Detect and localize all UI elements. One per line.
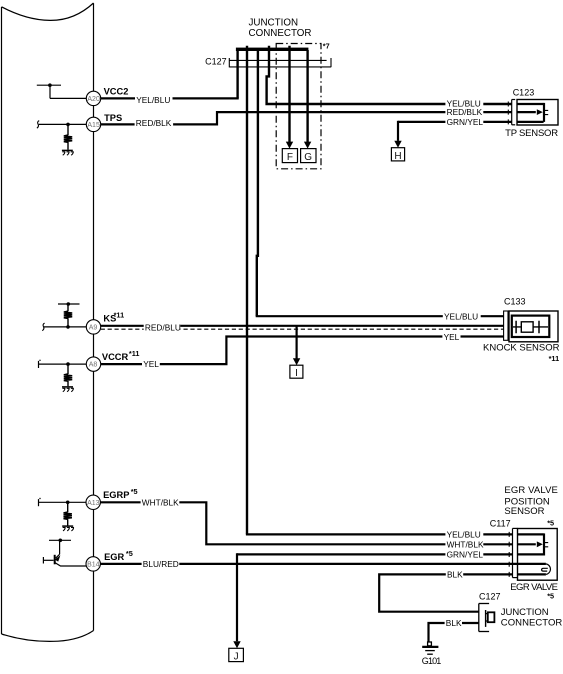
svg-text:A13: A13 [87, 500, 100, 507]
svg-text:C127: C127 [205, 57, 227, 67]
svg-text:H: H [394, 151, 401, 162]
svg-text:GRN/YEL: GRN/YEL [447, 550, 484, 560]
stub 2 long vertical to EGR sensor YEL/BLU [246, 50, 248, 534]
pin A8 [86, 357, 100, 371]
internal pull-up bar for A20 [37, 85, 61, 98]
junction connector C127 bottom symbol bracket [479, 604, 489, 632]
svg-text:*5: *5 [131, 487, 138, 496]
svg-text:G101: G101 [422, 656, 442, 666]
wire VCC2 YEL/BLU from A20 to junction connector stub [50, 97, 86, 99]
svg-text:BLK: BLK [446, 618, 462, 628]
dash-dot box *7 [276, 44, 321, 169]
ground for A8 filter [62, 386, 73, 388]
svg-text:A8: A8 [89, 362, 98, 369]
wire label WHT/BLK (EGRP) [141, 497, 180, 507]
knock sensor outer box [509, 311, 558, 342]
wire EGR BLU/RED from B14 to EGR valve coil [100, 563, 546, 565]
connector pin ticks C117 [508, 532, 510, 577]
wire label YEL (knock sensor) [442, 332, 460, 342]
wire label YEL (VCCR) [142, 359, 160, 369]
junction dot A15 filter [66, 123, 70, 127]
wire label YEL/BLU (VCC2) [135, 95, 173, 105]
wire YEL/BLU from stub 2 to EGR sensor [246, 533, 513, 535]
svg-text:VCC2: VCC2 [104, 86, 129, 96]
ground G101 [428, 642, 432, 646]
tick end at A13 wire [38, 499, 40, 506]
junction dot A9 [66, 325, 70, 329]
svg-text:YEL: YEL [444, 332, 460, 342]
continuation squiggle at A9 wire end [42, 323, 44, 331]
svg-text:BLU/RED: BLU/RED [143, 559, 179, 569]
svg-text:*7: *7 [323, 42, 330, 51]
svg-text:EGR: EGR [104, 552, 124, 562]
svg-text:TP SENSOR: TP SENSOR [505, 128, 558, 139]
bar above A9 resistor [58, 303, 80, 305]
svg-text:A15: A15 [87, 122, 100, 129]
pin A13 [86, 495, 100, 509]
transistor Q for B14 [43, 540, 86, 566]
wire label GRN/YEL (EGR sensor) [445, 550, 483, 560]
EGR sensor wiper ticks [544, 543, 549, 547]
tick end at A8 wire [38, 361, 40, 368]
svg-text:GRN/YEL: GRN/YEL [447, 117, 484, 127]
wire label BLK (EGR valve) [446, 570, 463, 580]
ECM left edge [1, 7, 3, 634]
wire label YEL/BLU (knock sensor) [443, 311, 481, 321]
stub 1 to VCC2 [236, 50, 238, 98]
wire GRN/YEL from TP sensor to H [398, 121, 512, 123]
off-page box I [290, 365, 303, 378]
TP sensor wiper arrow [537, 109, 543, 115]
ground for A15 filter [62, 149, 73, 151]
svg-text:C123: C123 [513, 87, 535, 97]
off-page box J [229, 648, 244, 661]
junction dot on transistor bar [59, 539, 63, 543]
EGR position sensor potentiometer [518, 533, 545, 555]
wire VCCR YEL from A8 to knock sensor [39, 363, 87, 365]
svg-text:A20: A20 [87, 96, 100, 103]
pin B14 [86, 557, 100, 571]
svg-text:KNOCK SENSOR: KNOCK SENSOR [483, 342, 560, 353]
svg-text:C127: C127 [479, 591, 501, 601]
wire label BLK (ground wire) [445, 618, 462, 628]
junction dot A8 filter [66, 362, 70, 366]
svg-text:*11: *11 [129, 349, 140, 358]
wire BLK from EGR valve to C127 junction [379, 574, 512, 611]
transistor base bar [54, 555, 56, 565]
pin A20 [86, 91, 100, 105]
wire BLK to ground G101 [429, 623, 479, 642]
knock sensor piezo square [521, 322, 533, 332]
svg-text:*5: *5 [126, 549, 133, 558]
shield dashed line [101, 328, 504, 330]
svg-text:C117: C117 [490, 518, 511, 528]
bus joint nubs [247, 46, 290, 48]
junction connector C127 bus bar [236, 48, 309, 51]
wire EGRP WHT/BLK from A13 to EGR sensor [39, 501, 86, 503]
svg-text:BLK: BLK [447, 570, 463, 580]
wire YEL/BLU to knock sensor from stub 3 [256, 315, 504, 317]
EGR valve box [518, 529, 558, 581]
EGR sensor wiper arrow [537, 541, 543, 547]
svg-text:*11: *11 [549, 354, 560, 363]
svg-text:YEL/BLU: YEL/BLU [136, 95, 170, 105]
svg-text:C133: C133 [504, 297, 526, 307]
TP sensor wiper ticks [544, 110, 549, 114]
svg-text:RED/BLU: RED/BLU [145, 322, 181, 332]
transistor arrow [55, 555, 61, 561]
TP sensor box [517, 100, 558, 126]
svg-text:VCCR: VCCR [102, 352, 129, 362]
svg-text:*5: *5 [547, 519, 554, 528]
filter resistor under A13 [67, 502, 69, 525]
svg-text:SENSOR: SENSOR [504, 506, 544, 517]
ECM torn bottom edge [2, 631, 94, 642]
svg-text:EGRP: EGRP [103, 490, 129, 500]
filter resistor under A15 [67, 124, 69, 149]
svg-text:A9: A9 [89, 325, 98, 332]
wire label GRN/YEL (TP sensor) [445, 117, 483, 127]
svg-text:B14: B14 [87, 562, 100, 569]
pull-up resistor above A9 [67, 304, 69, 327]
svg-text:CONNECTOR: CONNECTOR [501, 617, 563, 628]
wire GRN/YEL from EGR sensor to J [237, 553, 513, 555]
junction dot A13 filter [66, 501, 70, 505]
wire label RED/BLU (KS) [144, 322, 181, 332]
junction connector C127 bottom element [485, 610, 487, 627]
svg-text:YEL/BLU: YEL/BLU [444, 311, 478, 321]
EGR connector C117 bracket [513, 528, 518, 577]
knock sensor element bars [516, 321, 539, 333]
wire label RED/BLK (TP sensor) [445, 107, 483, 117]
svg-text:I: I [295, 368, 298, 379]
pin A9 [86, 320, 100, 334]
svg-text:EGR VALVE: EGR VALVE [504, 485, 558, 496]
knock sensor connector C133 [504, 311, 508, 340]
svg-text:WHT/BLK: WHT/BLK [142, 497, 179, 507]
wire label RED/BLK (TPS) [135, 118, 174, 128]
junction dot on A9 bar [67, 302, 71, 306]
svg-text:TPS: TPS [104, 113, 122, 123]
EGR valve coil [546, 564, 551, 575]
off-page box G [301, 149, 316, 163]
C127 connector strip [229, 58, 331, 67]
filter resistor under A8 [67, 364, 69, 386]
connector pin ticks C123 [507, 102, 509, 125]
BLK wire inside valve [518, 573, 546, 575]
svg-text:*5: *5 [547, 591, 554, 600]
junction dot on A20 bar [48, 83, 52, 87]
svg-text:F: F [287, 152, 293, 163]
wire KS RED/BLU shielded from A9 to knock sensor [44, 326, 86, 328]
continuation squiggle at A15 wire end [37, 121, 39, 129]
off-page box H [391, 148, 404, 161]
svg-text:YEL/BLU: YEL/BLU [447, 530, 481, 540]
wire label WHT/BLK (EGR sensor) [445, 539, 484, 549]
wire TPS RED/BLK from A15 to TP sensor [39, 123, 87, 125]
svg-text:CONNECTOR: CONNECTOR [249, 28, 312, 39]
svg-text:YEL: YEL [143, 359, 159, 369]
svg-text:*11: *11 [114, 310, 125, 319]
stub 5 arrow to F [288, 50, 290, 142]
ground for A13 filter [62, 525, 73, 527]
pin A15 [86, 117, 100, 131]
off-page box F [282, 149, 297, 163]
TP sensor connector C123 bracket [512, 100, 516, 125]
stub 6 arrow to G [306, 50, 308, 142]
svg-text:G: G [304, 152, 312, 163]
wire label BLU/RED (EGR) [142, 559, 180, 569]
shield drain drop to I [296, 326, 298, 359]
svg-text:RED/BLK: RED/BLK [136, 118, 172, 128]
svg-text:RED/BLK: RED/BLK [447, 107, 483, 117]
TP sensor potentiometer element [517, 103, 544, 122]
svg-text:WHT/BLK: WHT/BLK [447, 539, 484, 549]
stub 4 jogged vertical to TP sensor YEL/BLU [267, 50, 512, 104]
wire label YEL/BLU (EGR sensor) [445, 530, 483, 540]
ECM pin header line [93, 3, 95, 630]
knock sensor inner box [512, 316, 550, 337]
knock sensor element line [513, 326, 548, 328]
svg-text:J: J [234, 651, 239, 662]
wire label YEL/BLU (TP sensor) [445, 99, 483, 109]
ECM torn top edge [2, 3, 94, 20]
stub 3 vertical to knock sensor YEL/BLU [257, 50, 258, 316]
